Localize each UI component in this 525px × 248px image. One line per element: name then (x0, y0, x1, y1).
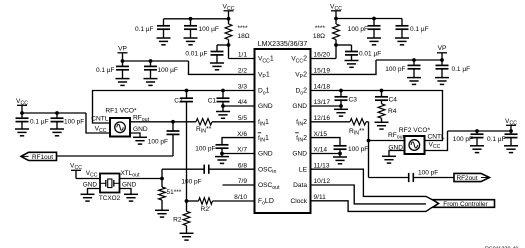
svg-text:0.1 µF: 0.1 µF (452, 66, 471, 73)
svg-text:5/5: 5/5 (238, 115, 247, 122)
svg-text:14/18: 14/18 (314, 84, 331, 91)
svg-text:100 pF: 100 pF (418, 169, 438, 176)
svg-text:CNTL: CNTL (428, 134, 446, 141)
svg-text:Clock: Clock (291, 198, 308, 205)
svg-text:18Ω: 18Ω (238, 33, 250, 40)
svg-text:7/9: 7/9 (238, 178, 247, 185)
svg-text:LMX2335/36/37: LMX2335/36/37 (258, 41, 308, 48)
svg-text:RF1out: RF1out (32, 154, 53, 161)
svg-text:C4: C4 (389, 97, 398, 104)
svg-text:3/3: 3/3 (238, 84, 247, 91)
svg-text:1/1: 1/1 (238, 52, 247, 59)
svg-text:13/17: 13/17 (314, 99, 331, 106)
svg-text:0.01 µF: 0.01 µF (185, 51, 207, 58)
svg-text:C3: C3 (349, 97, 358, 104)
svg-text:100 pF: 100 pF (181, 179, 201, 186)
svg-text:****: **** (238, 25, 249, 32)
svg-text:C1: C1 (208, 98, 217, 105)
svg-text:18Ω: 18Ω (313, 33, 325, 40)
svg-text:100 pF: 100 pF (453, 136, 473, 143)
svg-text:16/20: 16/20 (314, 52, 331, 59)
svg-text:0.01 µF: 0.01 µF (359, 51, 381, 58)
svg-text:X/6: X/6 (237, 131, 247, 138)
svg-text:100 pF: 100 pF (348, 26, 368, 33)
svg-text:R2: R2 (173, 217, 182, 224)
svg-text:8/10: 8/10 (234, 194, 247, 201)
svg-text:Data: Data (293, 182, 307, 189)
svg-text:2/2: 2/2 (238, 68, 247, 75)
svg-text:4/4: 4/4 (238, 99, 247, 106)
svg-text:GND: GND (122, 181, 137, 188)
svg-text:LE: LE (299, 166, 308, 173)
svg-text:15/19: 15/19 (314, 68, 331, 75)
svg-text:100 µF: 100 µF (199, 26, 219, 33)
svg-text:VP: VP (438, 45, 447, 52)
svg-text:11/13: 11/13 (314, 162, 330, 169)
svg-text:****: **** (315, 25, 326, 32)
svg-text:100 pF: 100 pF (195, 145, 215, 152)
svg-text:100 pF: 100 pF (348, 146, 368, 153)
svg-text:GND: GND (258, 151, 273, 158)
svg-text:X/15: X/15 (314, 131, 328, 138)
svg-text:RF2out: RF2out (457, 175, 478, 182)
svg-text:12/16: 12/16 (314, 115, 331, 122)
svg-text:100 pF: 100 pF (148, 139, 168, 146)
svg-text:GND: GND (292, 151, 307, 158)
svg-text:GND: GND (133, 126, 148, 133)
svg-text:From Controller: From Controller (443, 201, 488, 208)
svg-text:X/7: X/7 (237, 147, 247, 154)
svg-text:100 µF: 100 µF (158, 67, 178, 74)
svg-text:0.1 µF: 0.1 µF (410, 26, 429, 33)
svg-text:0.1 µF: 0.1 µF (487, 136, 506, 143)
svg-text:C2: C2 (174, 98, 183, 105)
svg-text:VP: VP (118, 46, 127, 53)
svg-text:CNTL: CNTL (91, 116, 109, 123)
svg-text:X/14: X/14 (314, 147, 328, 154)
svg-text:100 pF: 100 pF (64, 119, 84, 126)
svg-text:100 pF: 100 pF (385, 66, 405, 73)
svg-text:51***: 51*** (167, 189, 182, 196)
svg-text:R4: R4 (388, 108, 397, 115)
svg-text:R2': R2' (201, 206, 211, 213)
svg-text:9/11: 9/11 (314, 194, 327, 201)
svg-text:TCXO2: TCXO2 (99, 195, 121, 202)
svg-text:10/12: 10/12 (314, 178, 331, 185)
svg-text:GND: GND (292, 103, 307, 110)
svg-text:RF2 VCO*: RF2 VCO* (399, 127, 431, 134)
svg-text:RF1 VCO*: RF1 VCO* (105, 108, 137, 115)
svg-text:0.1 µF: 0.1 µF (30, 119, 49, 126)
svg-text:GND: GND (83, 181, 98, 188)
svg-text:0.1 µF: 0.1 µF (135, 26, 154, 33)
svg-text:GND: GND (258, 103, 273, 110)
svg-text:6/8: 6/8 (238, 162, 247, 169)
svg-text:0.1 µF: 0.1 µF (96, 67, 115, 74)
